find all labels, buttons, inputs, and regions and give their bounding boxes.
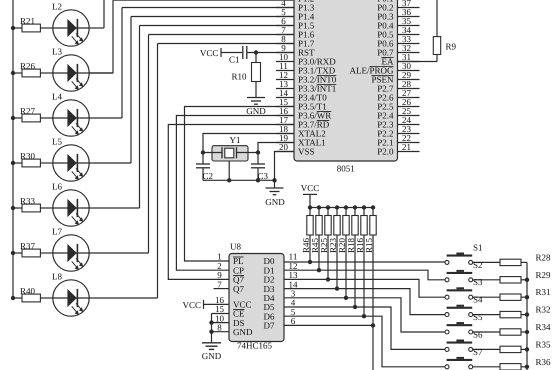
svg-text:8051: 8051: [337, 164, 355, 174]
svg-text:R34: R34: [536, 322, 552, 332]
svg-text:R27: R27: [20, 106, 36, 116]
svg-text:R40: R40: [20, 286, 36, 296]
svg-text:R26: R26: [20, 61, 36, 71]
svg-text:GND: GND: [265, 197, 285, 207]
svg-text:S4: S4: [473, 295, 483, 305]
svg-text:8: 8: [217, 322, 222, 332]
svg-text:R37: R37: [20, 241, 36, 251]
svg-text:R33: R33: [20, 196, 36, 206]
svg-text:R9: R9: [446, 42, 457, 52]
svg-text:20: 20: [279, 142, 289, 152]
svg-text:P0.1: P0.1: [377, 0, 393, 4]
svg-text:R10: R10: [231, 72, 247, 82]
svg-text:R28: R28: [536, 252, 552, 262]
svg-text:L3: L3: [52, 47, 62, 57]
svg-text:Y1: Y1: [230, 135, 241, 145]
svg-text:R31: R31: [536, 287, 551, 297]
svg-text:GND: GND: [246, 106, 266, 116]
svg-text:VCC: VCC: [200, 48, 219, 58]
svg-text:P2.0: P2.0: [377, 147, 394, 157]
svg-text:L5: L5: [52, 137, 62, 147]
svg-text:S3: S3: [473, 277, 483, 287]
svg-text:VCC: VCC: [301, 183, 320, 193]
svg-text:L8: L8: [52, 272, 62, 282]
svg-text:21: 21: [402, 142, 411, 152]
svg-text:R35: R35: [536, 339, 552, 349]
svg-text:R32: R32: [536, 305, 551, 315]
svg-text:S5: S5: [473, 312, 483, 322]
svg-text:U8: U8: [230, 242, 241, 252]
svg-text:R21: R21: [20, 16, 35, 26]
svg-text:S7: S7: [473, 347, 483, 357]
svg-text:L6: L6: [52, 182, 62, 192]
svg-text:VCC: VCC: [182, 300, 201, 310]
svg-text:7: 7: [217, 279, 222, 289]
svg-text:S6: S6: [473, 329, 483, 339]
svg-text:C1: C1: [229, 55, 240, 65]
svg-text:R15: R15: [364, 237, 374, 253]
svg-text:VSS: VSS: [298, 147, 315, 157]
svg-text:C2: C2: [203, 171, 214, 181]
svg-text:D7: D7: [264, 321, 275, 331]
svg-text:P1.2: P1.2: [298, 0, 314, 4]
svg-text:R36: R36: [536, 357, 552, 367]
svg-text:S1: S1: [473, 242, 483, 252]
svg-text:Q7: Q7: [233, 284, 244, 294]
svg-text:6: 6: [291, 316, 296, 326]
svg-text:S2: S2: [473, 260, 483, 270]
svg-text:L7: L7: [52, 227, 62, 237]
svg-text:R30: R30: [20, 151, 36, 161]
svg-text:R29: R29: [536, 270, 552, 280]
svg-text:74HC165: 74HC165: [237, 341, 273, 351]
svg-text:L2: L2: [52, 2, 62, 12]
svg-text:GND: GND: [202, 351, 222, 361]
svg-text:GND: GND: [233, 327, 253, 337]
svg-text:L4: L4: [52, 92, 62, 102]
